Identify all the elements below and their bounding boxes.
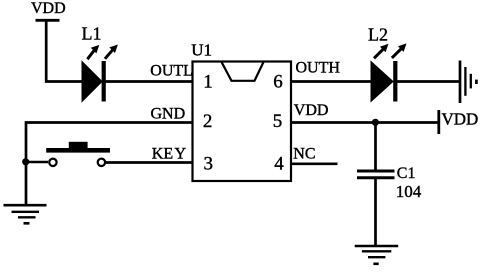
svg-text:VDD: VDD — [31, 0, 66, 17]
svg-text:1: 1 — [203, 72, 213, 93]
svg-text:L2: L2 — [368, 24, 388, 44]
wire C1 to bottom-right ground — [374, 178, 377, 246]
svg-text:U1: U1 — [191, 41, 212, 60]
svg-text:6: 6 — [273, 72, 283, 93]
pushbutton switch — [46, 142, 110, 166]
IC U1 body — [193, 62, 292, 182]
wire junction down to C1 — [374, 123, 377, 170]
power terminal VDD (right) — [439, 110, 479, 134]
svg-text:3: 3 — [203, 153, 213, 174]
svg-text:OUTL: OUTL — [150, 62, 193, 79]
svg-text:4: 4 — [274, 153, 284, 174]
svg-text:5: 5 — [273, 111, 283, 132]
svg-text:NC: NC — [293, 145, 315, 162]
LED L1 — [82, 45, 118, 102]
capacitor C1 — [357, 171, 395, 178]
svg-text:KEY: KEY — [152, 146, 187, 163]
svg-text:104: 104 — [396, 182, 422, 201]
junction node VDD / C1 — [372, 119, 379, 126]
wire pin2 (net GND) left and down to button/ground node — [26, 123, 192, 205]
svg-text:C1: C1 — [397, 165, 416, 182]
svg-text:VDD: VDD — [294, 102, 329, 119]
svg-text:GND: GND — [151, 106, 186, 123]
svg-text:VDD: VDD — [442, 110, 479, 129]
wire button right terminal to pin3 (net KEY) — [106, 161, 192, 164]
svg-text:2: 2 — [203, 111, 213, 132]
junction node (GND / button / ground) — [22, 158, 29, 165]
svg-text:L1: L1 — [82, 23, 102, 43]
LED L2 — [371, 43, 407, 101]
wire VDD bar down and right to LED L1 anode — [46, 20, 83, 81]
ground symbol (right, rotated) — [460, 61, 476, 104]
wire pin5 to VDD terminal (net VDD) — [291, 121, 439, 124]
pin4 stub (NC, no connect) — [292, 162, 338, 165]
ground symbol (bottom-left) — [4, 205, 47, 223]
wire junction to button left terminal — [26, 161, 48, 163]
wire pin6 to LED L2 anode (net OUTH) — [291, 80, 372, 83]
svg-text:OUTH: OUTH — [296, 60, 341, 77]
ground symbol (bottom-right) — [355, 246, 399, 264]
wire L2 cathode to right ground — [397, 80, 460, 83]
wire L1 cathode to pin1 (net OUTL) — [106, 80, 193, 83]
power symbol VDD (top-left) — [31, 0, 66, 20]
